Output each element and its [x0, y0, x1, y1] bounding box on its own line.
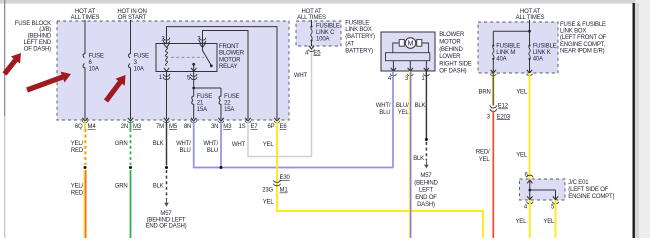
svg-text:M: M	[408, 41, 414, 48]
svg-text:BRN: BRN	[479, 89, 491, 95]
red arrow 2	[25, 69, 73, 96]
svg-text:21: 21	[197, 101, 204, 107]
svg-text:3N: 3N	[211, 124, 218, 130]
wire relay pin1 to 7M	[166, 72, 168, 120]
J/C E01 box	[520, 179, 566, 200]
wire WHT/BLU from 3N	[220, 121, 222, 168]
svg-text:10A: 10A	[134, 66, 144, 72]
svg-text:4: 4	[388, 76, 392, 82]
fuse F6	[83, 54, 85, 69]
fuse block J/B box	[57, 21, 289, 120]
label YEL/RED upper	[71, 141, 84, 154]
relay switch blade	[203, 44, 212, 66]
relay U1 box	[156, 44, 217, 72]
fuse F6 label	[89, 53, 104, 72]
svg-text:(LEFT SIDE OF: (LEFT SIDE OF	[568, 187, 608, 193]
wire BLK motor pin1	[425, 71, 427, 139]
svg-text:FUSIBLE: FUSIBLE	[316, 23, 340, 29]
red arrow 1	[0, 49, 26, 77]
svg-text:M4: M4	[88, 124, 97, 130]
svg-text:6P: 6P	[268, 124, 275, 130]
svg-text:M57: M57	[160, 211, 172, 217]
svg-text:YEL: YEL	[263, 199, 275, 205]
svg-text:BLU: BLU	[180, 148, 191, 154]
svg-text:E5: E5	[313, 50, 321, 56]
svg-text:YEL: YEL	[515, 219, 527, 225]
svg-text:FUSE & FUSIBLE: FUSE & FUSIBLE	[560, 22, 606, 28]
wire fuse3 to 2N	[130, 68, 132, 120]
wire BLU/YEL motor pin3	[409, 71, 411, 238]
svg-text:6Q: 6Q	[75, 124, 83, 130]
svg-text:RELAY: RELAY	[219, 64, 238, 70]
svg-text:RIGHT SIDE: RIGHT SIDE	[439, 61, 472, 67]
svg-text:1: 1	[421, 76, 425, 82]
connector arcs pin1	[163, 74, 170, 80]
relay mech link (dashed)	[171, 56, 204, 58]
wire GRN dashed upper	[130, 121, 132, 129]
node 7M M5	[156, 124, 178, 130]
svg-text:23G: 23G	[262, 188, 273, 194]
svg-text:WHT/: WHT/	[203, 141, 218, 147]
fuse & fusible link box label	[560, 22, 607, 54]
wire YEL J/C pin4	[529, 200, 531, 238]
relay pin5 bottom arrow	[191, 68, 196, 71]
motor exit cup arcs	[391, 74, 430, 76]
svg-text:RED: RED	[71, 191, 84, 197]
svg-text:15A: 15A	[197, 107, 207, 113]
svg-text:M3: M3	[223, 124, 232, 130]
svg-text:NEAR IPDM E/R): NEAR IPDM E/R)	[560, 48, 605, 54]
svg-text:(BEHIND: (BEHIND	[28, 34, 52, 40]
svg-text:15A: 15A	[224, 107, 234, 113]
svg-text:ENGINE COMPT): ENGINE COMPT)	[568, 194, 614, 200]
J/C internal wires	[530, 180, 556, 200]
label YEL/RED lower	[71, 184, 84, 197]
fusible link box (battery)	[296, 21, 341, 46]
label RED/YEL	[476, 150, 490, 164]
svg-text:FUSIBLE: FUSIBLE	[533, 44, 557, 50]
wire relay pin3 to 1S E7	[203, 31, 249, 120]
splice M4 wire	[84, 166, 87, 169]
wire YEL J/C pin5	[555, 200, 557, 238]
svg-text:(AT: (AT	[345, 42, 354, 48]
node 1S E7	[239, 124, 259, 130]
svg-text:YEL: YEL	[516, 89, 528, 95]
svg-text:FUSE BLOCK: FUSE BLOCK	[15, 21, 51, 27]
window top bar	[0, 0, 635, 4]
svg-text:BLK: BLK	[413, 156, 424, 162]
svg-text:2N: 2N	[121, 124, 128, 130]
link K exit arrow	[527, 70, 532, 73]
svg-text:BLU: BLU	[207, 148, 218, 154]
svg-text:MOTOR: MOTOR	[439, 40, 461, 46]
svg-text:3: 3	[487, 114, 491, 120]
window left border	[4, 0, 5, 116]
svg-text:BLU/: BLU/	[396, 103, 409, 109]
svg-text:YEL: YEL	[263, 142, 275, 148]
splice BLK	[165, 166, 168, 169]
label BLU/YEL	[396, 103, 409, 116]
J/C junction dot	[528, 189, 531, 192]
blower motor label	[439, 32, 472, 74]
J/B exit cup arcs	[82, 121, 280, 123]
splice BLK motor	[425, 138, 428, 141]
connector arcs pin3	[199, 38, 206, 44]
wire RED/YEL	[492, 111, 494, 239]
label WHT/BLU 3N	[203, 141, 218, 154]
node 2N M3	[121, 124, 142, 130]
svg-text:FUSIBLE: FUSIBLE	[496, 44, 520, 50]
splice GRN	[129, 166, 132, 169]
svg-text:3: 3	[405, 76, 409, 82]
svg-text:(BEHIND: (BEHIND	[439, 47, 463, 53]
fuse F21	[192, 88, 194, 119]
wire WHT/BLU motor pin4	[392, 71, 394, 168]
svg-text:40A: 40A	[533, 57, 543, 63]
svg-text:LINK K: LINK K	[533, 50, 551, 56]
svg-text:M1: M1	[280, 188, 289, 194]
relay pin2 entry arrow	[164, 44, 169, 47]
wire fuse3 feed	[130, 20, 132, 54]
wire YEL/RED solid stub	[84, 121, 86, 129]
wire WHT/BLU from 8N	[194, 121, 393, 168]
svg-text:ALL TIMES: ALL TIMES	[516, 15, 545, 21]
blower motor box	[381, 32, 435, 71]
fusible link C	[310, 25, 312, 27]
svg-text:GRN: GRN	[115, 184, 128, 190]
motor pin wires	[393, 61, 426, 71]
link M exit arrow	[491, 70, 496, 73]
svg-text:YEL/: YEL/	[71, 184, 84, 190]
svg-text:22: 22	[224, 101, 231, 107]
svg-text:LOWER: LOWER	[439, 54, 461, 60]
svg-text:(BATTERY): (BATTERY)	[345, 34, 375, 40]
svg-text:5: 5	[551, 204, 555, 210]
J/C E01 entry cup arc	[527, 175, 533, 177]
svg-text:E7: E7	[251, 124, 259, 130]
junction M/K	[528, 30, 531, 33]
wire YEL/RED solid lower	[83, 170, 85, 238]
svg-text:WHT: WHT	[232, 142, 246, 148]
svg-text:FRONT: FRONT	[219, 44, 239, 50]
window right panel	[635, 0, 650, 238]
wire BLK dashed motor	[425, 142, 427, 160]
svg-text:BATTERY): BATTERY)	[345, 49, 373, 55]
wire BLK dashed lower	[166, 170, 168, 199]
svg-text:E6: E6	[280, 124, 288, 130]
svg-text:YEL: YEL	[543, 219, 555, 225]
svg-text:LEFT: LEFT	[419, 188, 433, 194]
svg-text:OR START: OR START	[118, 15, 147, 21]
label WHT/BLU 8N	[176, 141, 191, 154]
J/B box exit arrows	[82, 118, 279, 121]
svg-text:BLOWER: BLOWER	[219, 51, 245, 57]
connector arcs pin2	[163, 38, 170, 44]
svg-text:END OF DASH): END OF DASH)	[146, 224, 187, 230]
fuse F22	[219, 88, 221, 119]
wire YEL right	[529, 73, 531, 179]
svg-text:M57: M57	[420, 173, 432, 179]
connector arcs E12	[490, 105, 497, 111]
node 3N M3	[211, 124, 232, 130]
svg-text:LEFT END: LEFT END	[24, 40, 52, 46]
svg-text:4: 4	[305, 50, 309, 56]
J/C exit arrows	[527, 196, 558, 199]
svg-text:(BEHIND: (BEHIND	[414, 180, 438, 186]
svg-text:7M: 7M	[156, 124, 164, 130]
motor symbol	[399, 40, 404, 47]
label WHT/BLU motor	[376, 103, 391, 116]
svg-text:YEL: YEL	[398, 110, 410, 116]
junction WHT/BLU	[220, 166, 223, 169]
svg-text:YEL: YEL	[516, 153, 528, 159]
svg-text:FUSE: FUSE	[197, 94, 212, 100]
svg-text:4: 4	[524, 204, 528, 210]
J/C E01 entry arrow (up)	[527, 180, 532, 183]
fuse F21 label	[197, 94, 212, 113]
wire YEL/RED dashed upper	[84, 129, 86, 165]
svg-text:BLK: BLK	[153, 184, 164, 190]
relay pin5 stub	[193, 64, 195, 71]
motor resistor bar	[386, 53, 430, 61]
wire fuse6 feed	[84, 20, 86, 54]
node 6P E6	[268, 124, 288, 130]
relay pin5 contact dot	[192, 63, 195, 66]
svg-text:10A: 10A	[89, 66, 99, 72]
fuse & fusible link box	[478, 22, 558, 73]
svg-text:LINK BOX: LINK BOX	[345, 27, 371, 33]
wire BLK solid upper	[166, 121, 168, 166]
svg-text:WHT/: WHT/	[376, 103, 391, 109]
svg-text:MOTOR: MOTOR	[219, 57, 241, 63]
E5 exit arrow	[309, 46, 314, 49]
svg-text:WHT/: WHT/	[176, 141, 191, 147]
svg-text:GRN: GRN	[115, 141, 128, 147]
svg-text:OF DASH): OF DASH)	[24, 46, 51, 52]
svg-text:40A: 40A	[496, 57, 506, 63]
relay coil bottom arrow	[164, 68, 169, 71]
wire GRN solid lower	[130, 170, 132, 238]
svg-text:(J/B): (J/B)	[39, 27, 51, 33]
svg-text:LINK BOX: LINK BOX	[560, 29, 586, 35]
fusible link C wire feed	[311, 20, 313, 27]
connector arcs E30	[274, 180, 281, 186]
fuse F3	[129, 54, 131, 69]
relay switch contact dot	[210, 64, 213, 67]
header HOT AT ALL TIMES (left)	[71, 9, 100, 21]
svg-text:BLOWER: BLOWER	[439, 32, 465, 38]
wire WHT net	[248, 49, 312, 157]
branch bar M/K	[493, 31, 529, 45]
svg-text:E203: E203	[497, 114, 511, 120]
relay coil	[166, 47, 168, 65]
svg-text:LINK M: LINK M	[496, 50, 515, 56]
svg-text:8N: 8N	[184, 124, 191, 130]
fuse F3 label	[134, 53, 149, 72]
wire YEL from 6P	[277, 121, 483, 238]
J/C E01 label	[568, 180, 614, 200]
svg-text:BLU: BLU	[379, 110, 390, 116]
svg-text:DASH): DASH)	[417, 202, 435, 208]
header HOT AT ALL TIMES (right)	[516, 9, 545, 21]
window right black border	[633, 3, 635, 238]
wire relay pin2 to 6P E6	[167, 27, 278, 119]
svg-text:J/C E01: J/C E01	[568, 180, 589, 186]
fusible link K	[528, 44, 530, 46]
svg-text:OF DASH): OF DASH)	[439, 69, 466, 75]
motor pin arrows	[391, 68, 429, 71]
svg-text:RED/: RED/	[476, 150, 490, 156]
fusible link K label	[533, 44, 557, 63]
svg-text:RED: RED	[71, 148, 84, 154]
fusible link box label	[345, 20, 375, 54]
svg-text:END OF: END OF	[415, 195, 437, 201]
svg-text:FUSE: FUSE	[224, 94, 239, 100]
fusible link C label	[316, 23, 340, 42]
svg-text:1S: 1S	[239, 124, 246, 130]
wire fuse6 to 6Q	[84, 68, 86, 120]
wire BRN	[492, 73, 494, 106]
svg-text:YEL: YEL	[479, 157, 491, 163]
svg-text:M3: M3	[133, 124, 142, 130]
relay label	[219, 44, 245, 70]
node 8N	[184, 124, 191, 130]
ground arrow M57 left	[166, 199, 168, 203]
relay pin3 entry arrow	[200, 44, 205, 47]
svg-text:YEL/: YEL/	[71, 141, 84, 147]
fusible link M label	[496, 44, 520, 63]
ground label M57 left	[146, 211, 187, 230]
svg-text:100A: 100A	[316, 37, 329, 43]
svg-text:E30: E30	[280, 175, 291, 181]
wire relay pin5 to fuse branch	[194, 72, 221, 89]
svg-text:BLK: BLK	[153, 141, 164, 147]
junction fuse branch	[192, 87, 195, 90]
svg-text:WHT: WHT	[294, 73, 308, 79]
svg-text:BLK: BLK	[415, 103, 426, 109]
svg-text:LINK C: LINK C	[316, 30, 335, 36]
fusible link M/K feed	[529, 20, 531, 31]
connector arcs pin5	[190, 74, 197, 80]
svg-text:(LEFT FRONT OF: (LEFT FRONT OF	[560, 35, 607, 41]
svg-text:E12: E12	[498, 104, 509, 110]
svg-text:FUSE: FUSE	[134, 53, 149, 59]
fusible link M	[492, 44, 494, 46]
svg-text:ENGINE COMPT,: ENGINE COMPT,	[560, 42, 606, 48]
motor internal wires	[393, 43, 429, 53]
svg-text:M5: M5	[169, 124, 178, 130]
svg-text:FUSE: FUSE	[89, 53, 104, 59]
header HOT AT ALL TIMES (middle)	[297, 9, 326, 21]
ground label M57 right	[414, 173, 438, 208]
J/C exit cup arcs	[527, 202, 559, 204]
header HOT IN ON OR START	[117, 9, 146, 21]
fuse block location label	[15, 21, 52, 53]
node 6Q M4	[75, 124, 96, 130]
fuse F22 label	[224, 94, 239, 113]
red arrow 3	[101, 72, 130, 105]
svg-text:(BEHIND LEFT: (BEHIND LEFT	[147, 217, 186, 223]
ground arrow M57 right	[425, 160, 427, 165]
svg-text:FUSIBLE: FUSIBLE	[345, 20, 369, 26]
